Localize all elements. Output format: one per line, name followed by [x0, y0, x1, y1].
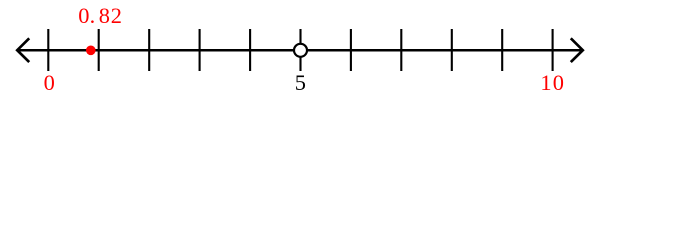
- tick 9: [501, 29, 503, 71]
- tick 1: [98, 29, 100, 71]
- svg-text:10: 10: [540, 70, 565, 95]
- tick 2: [148, 29, 150, 71]
- right arrowhead: [571, 38, 583, 62]
- left arrowhead: [17, 38, 29, 62]
- tick 6: [350, 29, 352, 71]
- tick 10: [552, 29, 554, 71]
- plotted point 0.82 (filled red dot): [86, 46, 96, 56]
- tick 3: [199, 29, 201, 71]
- tick 0: [47, 29, 49, 71]
- tick 4: [249, 29, 251, 71]
- svg-text:0.82: 0.82: [78, 3, 122, 28]
- number line axis: [18, 49, 583, 52]
- svg-text:5: 5: [295, 70, 306, 95]
- open circle at 5: [294, 44, 307, 57]
- svg-text:0: 0: [44, 70, 55, 95]
- tick 5: [299, 29, 301, 71]
- tick 8: [451, 29, 453, 71]
- tick 7: [400, 29, 402, 71]
